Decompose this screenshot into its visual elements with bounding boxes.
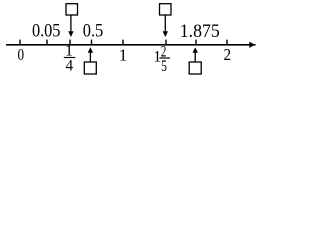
- svg-text:2: 2: [224, 45, 232, 64]
- svg-text:4: 4: [66, 58, 74, 75]
- svg-text:0.5: 0.5: [83, 21, 104, 42]
- svg-text:5: 5: [161, 58, 167, 75]
- svg-text:0.05: 0.05: [32, 21, 61, 42]
- svg-text:1.875: 1.875: [180, 21, 220, 42]
- svg-text:1: 1: [119, 45, 128, 64]
- svg-text:0: 0: [18, 45, 25, 64]
